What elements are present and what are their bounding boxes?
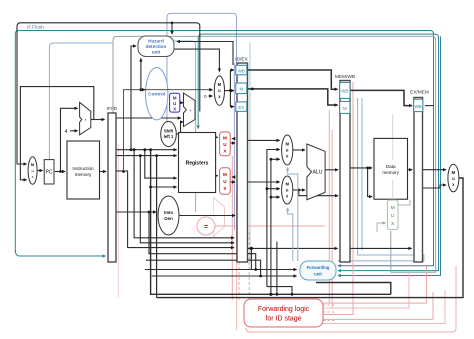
svg-text:PC: PC [46,170,53,176]
svg-text:M: M [218,82,222,87]
svg-text:+: + [189,108,192,113]
svg-text:4: 4 [65,129,68,135]
svg-text:unit: unit [314,272,322,277]
svg-text:memory: memory [75,172,92,177]
svg-text:u: u [286,188,289,193]
svg-text:M: M [223,172,227,177]
svg-text:WB: WB [341,89,348,94]
svg-text:Forwarding: Forwarding [307,265,330,270]
svg-text:M: M [391,205,395,211]
svg-text:=: = [204,224,208,231]
svg-text:for ID stage: for ID stage [265,316,301,323]
svg-text:Shift: Shift [164,129,174,134]
svg-text:U: U [391,213,395,219]
svg-text:M: M [173,96,177,101]
svg-text:x: x [32,174,34,179]
svg-text:Instruction: Instruction [72,166,94,171]
svg-text:WB: WB [238,68,245,73]
svg-text:ALU: ALU [312,170,322,176]
svg-text:+: + [84,118,87,123]
svg-text:M: M [285,142,289,147]
svg-text:left 1: left 1 [164,134,174,139]
svg-text:M: M [223,136,227,141]
svg-text:M: M [343,106,347,111]
svg-text:EX/MEM: EX/MEM [410,90,429,96]
svg-text:ID/EX: ID/EX [235,57,248,63]
svg-text:Imm: Imm [164,210,173,215]
svg-text:u: u [31,168,33,173]
svg-text:u: u [452,176,455,181]
svg-text:Hazard: Hazard [148,39,164,44]
svg-text:Data: Data [386,164,396,169]
svg-text:M: M [285,182,289,187]
svg-text:u: u [218,88,221,93]
svg-text:IF/ID: IF/ID [107,106,118,112]
svg-text:u: u [286,148,289,153]
svg-text:WB: WB [415,104,422,109]
svg-text:unit: unit [152,50,161,55]
svg-text:IF.Flush: IF.Flush [27,25,44,31]
svg-text:Forwarding logic: Forwarding logic [258,306,310,313]
svg-text:EX: EX [238,105,244,110]
svg-text:M: M [239,87,243,92]
svg-text:MEM/WB: MEM/WB [335,74,355,80]
svg-text:detection: detection [146,44,167,49]
svg-text:memory: memory [382,170,399,175]
svg-text:Registers: Registers [186,161,209,167]
svg-text:M: M [452,170,456,175]
svg-text:Control: Control [148,92,165,98]
svg-text:Gen: Gen [164,216,173,221]
